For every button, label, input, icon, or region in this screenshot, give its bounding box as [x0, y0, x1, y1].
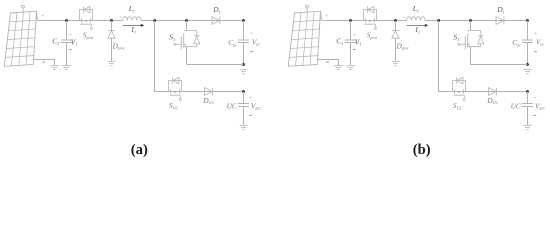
ultracapacitor UC — [522, 104, 533, 107]
node S1 drain junction — [469, 19, 472, 22]
node C_pc bottom junction — [242, 63, 245, 66]
label V1 polarity - — [353, 49, 356, 51]
node D_prot junction — [110, 19, 113, 22]
diode D_prot — [111, 21, 113, 31]
label V_UC polarity - — [533, 114, 536, 116]
wire PV positive terminal to top rail — [320, 11, 323, 20]
wire C_pc stem — [243, 21, 245, 65]
wire UC stem — [527, 92, 529, 125]
node UC junction — [242, 90, 245, 93]
svg-text:+: + — [41, 15, 44, 20]
node C1 top junction — [65, 19, 68, 22]
ground PV — [334, 66, 343, 70]
transistor S1 (MOSFET with body diode) — [186, 21, 188, 31]
label V_pc polarity - — [250, 51, 253, 53]
wire C1 stem — [66, 21, 68, 66]
capacitor C_pc — [238, 40, 249, 43]
capacitor C1 — [345, 40, 356, 43]
label V_UC polarity - — [249, 114, 252, 116]
ground C_pc — [524, 70, 532, 74]
wire PV negative terminal to ground — [318, 60, 339, 66]
ground C1 — [62, 66, 71, 70]
node C1 top junction — [349, 19, 352, 22]
wire top rail — [321, 20, 527, 22]
label V_pc polarity - — [534, 51, 537, 53]
ground D_prot — [108, 62, 115, 66]
ground UC — [524, 125, 532, 129]
wire S1 source rail — [187, 64, 244, 66]
wire UC stem — [243, 92, 245, 125]
wire PV positive terminal to top rail — [36, 11, 39, 20]
ground UC — [240, 125, 248, 129]
current arrow I1 — [123, 24, 142, 26]
node UC junction — [526, 90, 529, 93]
svg-text:(a): (a) — [131, 142, 148, 158]
diode D_UC — [205, 88, 213, 96]
diode D_prot — [395, 21, 397, 31]
ground C1 — [346, 66, 355, 70]
svg-text:UC: UC — [227, 102, 237, 111]
wire S1 source rail — [471, 64, 528, 66]
switch S_UC (MOSFET with body diode) — [453, 81, 466, 92]
svg-text:+: + — [325, 15, 328, 20]
label V1 polarity - — [69, 49, 72, 51]
wire node A down and across to S_UC branch — [439, 21, 528, 92]
inductor L1 — [123, 17, 141, 21]
node S1 drain junction — [185, 19, 188, 22]
wire C_pc stem — [527, 21, 529, 65]
label PV polarity - — [326, 61, 329, 63]
inductor L1 — [407, 17, 425, 21]
ground D_prot — [392, 62, 399, 66]
wire node A down and across to S_UC branch — [155, 21, 244, 92]
circuit (b) — [288, 4, 545, 129]
node C_pc top junction — [526, 19, 529, 22]
wire C1 stem — [350, 21, 352, 66]
node A after inductor — [437, 19, 440, 22]
switch S_prot (MOSFET with body diode) — [364, 10, 377, 21]
switch S_prot (MOSFET with body diode) — [80, 10, 93, 21]
svg-text:UC: UC — [511, 102, 521, 111]
transistor S1 (MOSFET with body diode) — [470, 21, 472, 31]
ground C_pc — [240, 70, 248, 74]
label PV polarity - — [42, 61, 45, 63]
diode D_UC — [489, 88, 497, 96]
PV array panel — [288, 11, 320, 66]
svg-text:+: + — [534, 32, 537, 37]
ground PV — [50, 66, 59, 70]
circuit (a) — [4, 4, 261, 129]
ultracapacitor UC — [238, 104, 249, 107]
node A after inductor — [153, 19, 156, 22]
node C_pc bottom junction — [526, 63, 529, 66]
diode D1 — [496, 17, 504, 25]
wire top rail — [37, 20, 243, 22]
capacitor C1 — [61, 40, 72, 43]
switch S_UC (MOSFET with body diode) — [169, 81, 182, 92]
diode D1 — [212, 17, 220, 25]
node D_prot junction — [394, 19, 397, 22]
svg-text:+: + — [250, 32, 253, 37]
current arrow I1 — [407, 24, 426, 26]
wire PV negative terminal to ground — [34, 60, 55, 66]
svg-text:(b): (b) — [413, 142, 431, 158]
capacitor C_pc — [522, 40, 533, 43]
node C_pc top junction — [242, 19, 245, 22]
PV array panel — [4, 11, 36, 66]
